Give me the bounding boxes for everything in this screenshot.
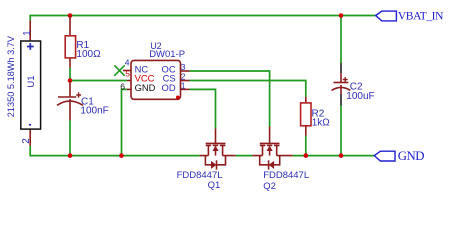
transistor Q1 FDD8447L	[177, 129, 236, 192]
resistor R1	[65, 17, 101, 68]
port VBAT_IN	[376, 11, 444, 23]
wire pin 1 OD to Q1 gate	[190, 89, 216, 128]
battery U1	[6, 20, 41, 145]
pin 3 OC stub	[181, 70, 190, 72]
junction C2 top rail	[339, 13, 344, 18]
wire R1 bottom to VCC node	[69, 68, 71, 81]
transistor Q2 FDD8447L	[252, 127, 309, 192]
wire R1 top to rail	[69, 16, 71, 17]
svg-text:100uF: 100uF	[346, 91, 374, 102]
svg-text:GND: GND	[398, 149, 425, 163]
wire GND rail right	[293, 155, 376, 157]
pin 2 CS stub	[181, 80, 190, 82]
svg-text:1kΩ: 1kΩ	[312, 118, 331, 129]
svg-text:Q2: Q2	[263, 181, 276, 192]
wire Q1-Q2 rail segment	[236, 155, 253, 157]
svg-text:5: 5	[125, 69, 130, 79]
pin 6 GND stub	[127, 88, 131, 90]
svg-text:21350 5.18Wh 3.7V: 21350 5.18Wh 3.7V	[6, 35, 16, 117]
capacitor C2	[332, 63, 375, 106]
junction R2 bottom rail	[304, 153, 309, 158]
wire GND rail left	[30, 146, 199, 156]
svg-text:1: 1	[181, 81, 186, 91]
capacitor C1	[57, 81, 109, 120]
svg-text:6: 6	[120, 81, 125, 91]
junction VCC node	[68, 78, 73, 83]
wire C2 bottom to rail	[340, 106, 342, 156]
wire pin 3 OC to Q2 gate	[190, 71, 270, 127]
junction pin6 wire rail	[119, 153, 124, 158]
svg-text:FDD8447L: FDD8447L	[263, 170, 309, 181]
svg-text:2: 2	[21, 138, 32, 144]
svg-text:U1: U1	[26, 75, 37, 87]
junction C2 bottom rail	[339, 153, 344, 158]
wire R2 bottom to rail	[305, 136, 307, 156]
wire pin 2 CS to R2 top	[190, 81, 306, 97]
svg-text:1: 1	[22, 30, 33, 36]
pin 4 NC stub	[123, 70, 131, 72]
wire top rail VBAT	[30, 16, 376, 21]
svg-text:VBAT_IN: VBAT_IN	[398, 11, 444, 23]
wire C2 top to rail	[340, 16, 342, 63]
junction R1 top rail	[68, 13, 73, 18]
svg-text:DW01-P: DW01-P	[149, 49, 185, 60]
svg-text:GND: GND	[135, 82, 156, 93]
svg-text:Q1: Q1	[208, 180, 221, 191]
port GND	[374, 149, 424, 163]
pin 1 OD stub	[181, 88, 190, 90]
wire VCC node to pin 5	[70, 80, 127, 82]
resistor R2	[301, 97, 331, 136]
svg-text:OD: OD	[162, 82, 176, 93]
no-connect cross pin 4	[114, 65, 124, 76]
pin 5 VCC stub	[127, 80, 131, 82]
svg-text:4: 4	[125, 58, 130, 68]
svg-text:100nF: 100nF	[80, 106, 108, 117]
wire C1 bottom to GND rail	[69, 120, 71, 155]
wire pin 6 GND to rail	[122, 89, 127, 155]
svg-text:100Ω: 100Ω	[76, 49, 101, 60]
op-amp U2 DW01-P body	[131, 41, 185, 99]
junction C1 bottom rail	[68, 153, 73, 158]
